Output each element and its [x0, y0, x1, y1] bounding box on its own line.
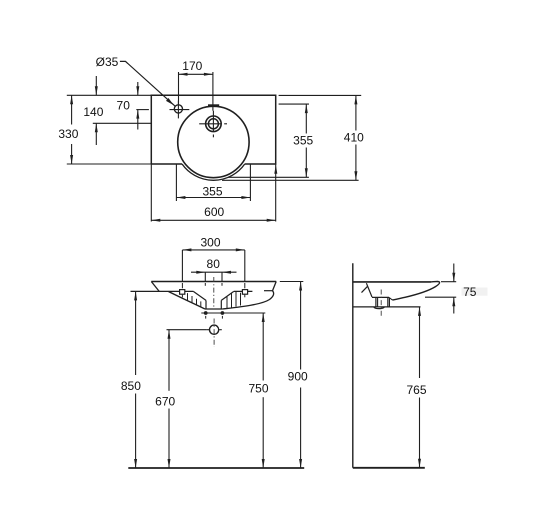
svg-text:765: 765 [406, 383, 426, 397]
svg-text:355: 355 [202, 184, 222, 198]
svg-text:75: 75 [463, 285, 477, 299]
svg-text:410: 410 [344, 131, 364, 145]
svg-text:330: 330 [58, 127, 78, 141]
svg-text:170: 170 [182, 59, 202, 73]
svg-text:670: 670 [155, 395, 175, 409]
svg-text:70: 70 [117, 98, 131, 112]
svg-text:Ø35: Ø35 [96, 55, 119, 69]
svg-text:80: 80 [207, 257, 221, 271]
svg-text:355: 355 [293, 134, 313, 148]
svg-text:600: 600 [204, 205, 224, 219]
svg-text:140: 140 [83, 105, 103, 119]
svg-text:750: 750 [248, 382, 268, 396]
svg-text:900: 900 [288, 369, 308, 383]
svg-text:850: 850 [121, 379, 141, 393]
svg-text:300: 300 [200, 236, 220, 250]
